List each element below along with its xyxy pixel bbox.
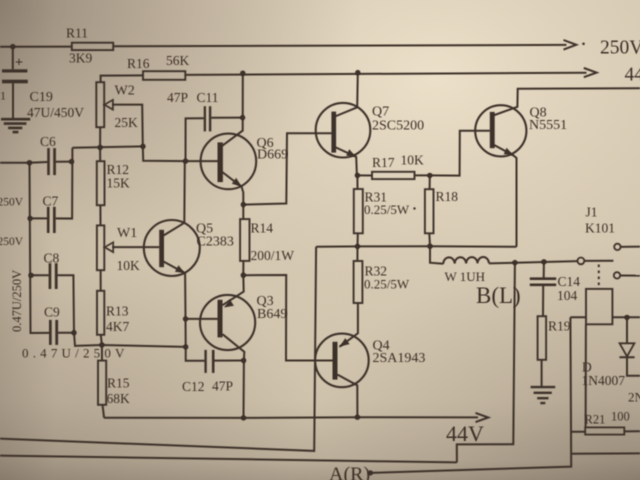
svg-text:+: +: [15, 56, 23, 71]
svg-text:C7: C7: [43, 194, 59, 209]
svg-text:15K: 15K: [107, 175, 131, 190]
svg-text:R18: R18: [436, 189, 459, 204]
svg-text:10K: 10K: [401, 152, 425, 167]
svg-text:C8: C8: [44, 251, 60, 266]
svg-text:56K: 56K: [166, 53, 190, 68]
svg-text:C9: C9: [44, 305, 60, 320]
svg-text:4K7: 4K7: [106, 319, 129, 334]
svg-text:2N: 2N: [628, 390, 640, 405]
svg-text:2SC5200: 2SC5200: [372, 118, 424, 133]
svg-text:2SA1943: 2SA1943: [373, 351, 426, 366]
svg-text:47P: 47P: [212, 379, 233, 394]
svg-text:0.47U/250V: 0.47U/250V: [22, 346, 129, 361]
svg-text:U/250V: U/250V: [0, 197, 24, 209]
svg-text:C19: C19: [30, 90, 53, 105]
svg-text:68K: 68K: [107, 391, 131, 406]
svg-text:N5551: N5551: [529, 118, 567, 133]
svg-text:R14: R14: [251, 221, 274, 236]
svg-text:44: 44: [625, 65, 640, 86]
svg-text:47P: 47P: [167, 90, 188, 105]
svg-text:250V: 250V: [600, 38, 640, 59]
svg-text:1: 1: [0, 89, 6, 103]
svg-text:100: 100: [611, 410, 630, 424]
svg-text:Q7: Q7: [372, 105, 389, 120]
svg-text:C12: C12: [182, 379, 205, 394]
svg-text:B649: B649: [257, 307, 287, 322]
svg-text:R13: R13: [106, 304, 129, 319]
svg-text:C6: C6: [40, 134, 56, 149]
svg-text:3K9: 3K9: [69, 51, 92, 66]
svg-text:C2383: C2383: [197, 235, 234, 250]
svg-text:R15: R15: [107, 376, 130, 391]
svg-text:R19: R19: [548, 319, 571, 334]
svg-text:J1: J1: [586, 205, 598, 220]
svg-text:W 1UH: W 1UH: [445, 269, 486, 284]
svg-text:C14: C14: [558, 274, 581, 289]
svg-text:47U/450V: 47U/450V: [27, 105, 84, 120]
svg-text:D669: D669: [257, 148, 288, 163]
svg-text:200/1W: 200/1W: [251, 248, 295, 263]
svg-text:B(L): B(L): [476, 283, 521, 308]
svg-text:0.25/5W: 0.25/5W: [364, 276, 410, 291]
svg-text:W2: W2: [115, 84, 135, 99]
svg-text:K101: K101: [585, 221, 615, 236]
svg-text:104: 104: [557, 288, 578, 303]
svg-text:3/250V: 3/250V: [0, 236, 24, 248]
svg-text:R16: R16: [127, 56, 150, 71]
svg-text:W1: W1: [117, 226, 137, 241]
svg-text:A(R): A(R): [329, 464, 370, 480]
svg-text:C11: C11: [197, 90, 219, 105]
svg-text:R11: R11: [66, 25, 88, 40]
svg-text:R21: R21: [585, 413, 606, 427]
svg-text:0.47U/250V: 0.47U/250V: [10, 270, 24, 332]
svg-text:0.25/5W: 0.25/5W: [364, 202, 410, 217]
svg-text:25K: 25K: [115, 115, 139, 130]
svg-text:10K: 10K: [117, 258, 141, 273]
svg-text:R17: R17: [372, 155, 395, 170]
svg-text:1N4007: 1N4007: [582, 373, 626, 388]
svg-text:44V: 44V: [446, 421, 484, 446]
